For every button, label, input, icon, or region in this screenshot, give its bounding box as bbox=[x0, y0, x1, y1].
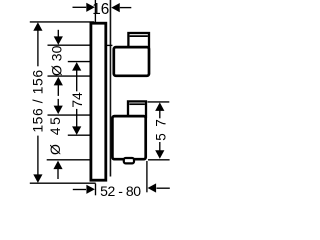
d45 top arrow bbox=[54, 106, 63, 115]
d45 top tail bbox=[57, 99, 59, 106]
156 dim line lower seg bbox=[37, 136, 39, 176]
svg-text:Ø 30: Ø 30 bbox=[49, 45, 65, 76]
16 left arrow bbox=[86, 3, 95, 12]
d30 top ext line bbox=[48, 44, 91, 46]
57 dim line lower seg bbox=[159, 142, 161, 151]
74 bottom ext line bbox=[68, 134, 91, 136]
156 top extension line bbox=[30, 21, 94, 23]
dimension 156/156 (left) bbox=[30, 22, 96, 183]
d45 bottom tail bbox=[57, 168, 59, 179]
57 bottom arrow bbox=[155, 150, 164, 159]
57 top ext line bbox=[148, 101, 170, 103]
74 top arrow bbox=[72, 62, 81, 71]
svg-text:16: 16 bbox=[92, 1, 109, 18]
bottom cap inner line bbox=[129, 103, 145, 105]
52-80 left ext line bbox=[95, 184, 97, 196]
d45 top ext line bbox=[48, 114, 91, 116]
57 top arrow bbox=[155, 102, 164, 111]
16 left extension line bbox=[94, 0, 96, 23]
156 top arrow bbox=[33, 22, 42, 31]
d30 bottom tail bbox=[57, 85, 59, 96]
d30 top tail bbox=[57, 30, 59, 38]
156 dim line upper seg bbox=[37, 29, 39, 66]
16 right arrow bbox=[111, 3, 120, 12]
52-80 right arrow bbox=[148, 183, 157, 192]
d45 bottom arrow bbox=[53, 161, 62, 170]
57 dim line upper seg bbox=[159, 110, 161, 119]
74 dim line lower seg bbox=[76, 109, 78, 128]
foot tab under bottom block bbox=[124, 158, 134, 163]
escutcheon plate side view bbox=[91, 23, 106, 180]
156 bottom extension line bbox=[30, 182, 96, 184]
svg-text:52 - 80: 52 - 80 bbox=[100, 183, 141, 199]
d45 bottom ext line bbox=[47, 159, 91, 161]
74 top ext line bbox=[68, 61, 91, 63]
52-80 right ext line bbox=[146, 161, 148, 192]
top handle block bbox=[114, 47, 149, 76]
top cap inner line bbox=[130, 35, 148, 37]
52-80 left leader bbox=[73, 189, 86, 191]
dimension 57 (right) bbox=[148, 102, 170, 160]
74 bottom arrow bbox=[72, 126, 81, 134]
dimension 16 (top) bbox=[73, 0, 132, 23]
d30 top arrow bbox=[54, 36, 63, 45]
d30 bottom arrow bbox=[54, 77, 63, 86]
svg-text:57: 57 bbox=[154, 113, 169, 141]
bottom handle block bbox=[112, 116, 145, 159]
bottom handle cap box bbox=[128, 101, 146, 117]
dimension stack Ø30 / Ø45 bbox=[47, 30, 113, 179]
d30 top ext line stub bbox=[106, 44, 112, 46]
top handle cap box bbox=[128, 33, 149, 47]
dimension 74 bbox=[68, 62, 91, 136]
wall line bbox=[109, 0, 111, 177]
d30 bottom ext line bbox=[48, 75, 91, 77]
16 right leader bbox=[120, 7, 132, 9]
svg-text:156 / 156: 156 / 156 bbox=[30, 69, 46, 132]
dimension 52 - 80 (bottom) bbox=[73, 161, 170, 195]
svg-text:Ø 45: Ø 45 bbox=[47, 115, 63, 155]
svg-text:74: 74 bbox=[69, 92, 85, 108]
74 dim line upper seg bbox=[76, 70, 78, 92]
52-80 left arrow bbox=[86, 185, 95, 194]
156 bottom arrow bbox=[33, 174, 42, 183]
52-80 right leader bbox=[157, 187, 170, 189]
16 left leader bbox=[73, 6, 87, 8]
57 bottom ext line bbox=[148, 159, 170, 161]
